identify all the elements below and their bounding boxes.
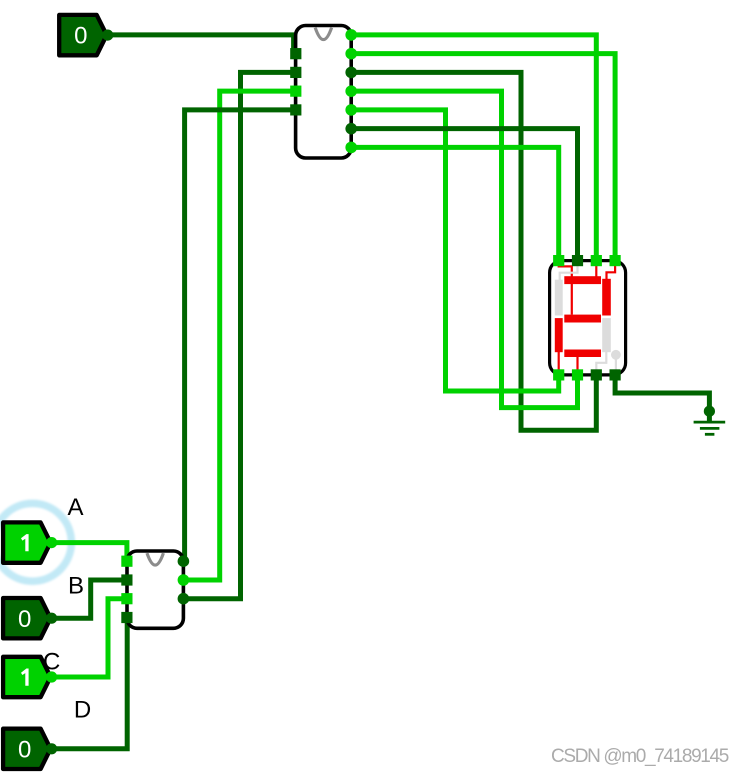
display trace to segment d (576, 356, 578, 372)
chip U2 output pin out1 (178, 555, 190, 567)
wire from pin A to U2 pin in1 (52, 543, 127, 562)
svg-text:D: D (74, 697, 91, 724)
input pin A (value 1) (3, 522, 57, 562)
input pin C (value 1) (3, 657, 57, 697)
chip U2 output pin out3 (178, 593, 190, 605)
display segment c (off) (602, 318, 611, 352)
wire from U1 out1 to display segment a pin (351, 35, 596, 261)
subcircuit chip U1 body (296, 26, 352, 159)
input pin 0 (top left, value 0) (59, 15, 113, 55)
chip U1 input pin in4 (290, 104, 301, 115)
wire from U1 out4 to display segment d pin (351, 91, 577, 407)
display segment d (lit) (564, 350, 601, 358)
display trace to segment a (595, 263, 597, 277)
display trace to segment f (560, 263, 578, 281)
display trace to segment c (596, 352, 606, 372)
display segment g (lit) (564, 315, 601, 323)
chip U1 output pin out3 (345, 67, 357, 79)
svg-text:0: 0 (74, 23, 87, 50)
wire from U1 out7 to display segment g pin (351, 147, 559, 260)
wire from pin C to U2 pin in3 (52, 599, 127, 677)
wire from pin D to U2 pin in4 (52, 618, 127, 749)
display trace to segment g (559, 263, 572, 315)
display bottom pin c (591, 369, 602, 380)
display top pin b (610, 255, 621, 266)
wire from U2 out1 to U1 pin in4 (183, 110, 295, 561)
svg-text:0: 0 (18, 606, 31, 633)
chip U1 input pin in2 (290, 67, 301, 78)
display segment b (lit) (602, 279, 611, 316)
display top pin f (572, 255, 583, 266)
wire from U1 out3 to display segment c pin (351, 72, 596, 430)
display trace to decimal point (615, 355, 617, 372)
display segment e (lit) (555, 318, 563, 352)
svg-text:B: B (68, 573, 84, 600)
svg-text:A: A (67, 494, 83, 521)
chip U1 output pin out6 (345, 123, 357, 135)
wire from U2 out2 to U1 pin in3 (183, 91, 295, 580)
display segment f (off) (555, 280, 563, 316)
chip U2 notch (147, 553, 163, 565)
display trace to segment e (558, 352, 560, 372)
wire from pin 0 to U1 pin in1 (107, 35, 294, 54)
display decimal point (off) (611, 350, 621, 360)
input pin B (value 0) (3, 598, 57, 638)
wire from U1 out6 to display segment f pin (351, 129, 577, 261)
chip U1 notch (315, 28, 331, 40)
chip U1 output pin out1 (345, 29, 357, 41)
chip U2 output pin out2 (178, 574, 190, 586)
display trace to segment b (607, 263, 616, 280)
wire from pin B to U2 pin in2 (52, 580, 127, 618)
display bottom pin d (572, 369, 583, 380)
chip U2 input pin C (121, 593, 132, 604)
chip U2 input pin D (121, 612, 132, 623)
wire from U1 out2 to display segment b pin (351, 54, 615, 261)
chip U2 input pin B (121, 574, 132, 585)
chip U1 output pin out7 (345, 142, 357, 154)
display bottom pin e (553, 369, 564, 380)
display segment a (lit) (564, 276, 601, 284)
chip U1 input pin in1 (290, 48, 301, 59)
chip U1 output pin out2 (345, 48, 357, 60)
chip U1 output pin out4 (345, 85, 357, 97)
chip U1 output pin out5 (345, 104, 357, 116)
input pin D (value 0) (3, 729, 57, 769)
chip U2 input pin A (121, 556, 132, 567)
svg-text:0: 0 (18, 736, 31, 763)
display top pin a (591, 255, 602, 266)
ground symbol (694, 406, 726, 435)
wire from display dp pin to ground (615, 375, 709, 411)
chip U1 input pin in3 (290, 86, 301, 97)
wire from U1 out5 to display segment e pin (351, 110, 559, 391)
subcircuit chip U2 body (127, 551, 183, 628)
wire from U2 out3 to U1 pin in2 (183, 72, 295, 598)
display top pin g (553, 255, 564, 266)
display bottom pin dp (610, 369, 621, 380)
svg-text:CSDN @m0_74189145: CSDN @m0_74189145 (551, 746, 729, 767)
seven segment display DS1 body (550, 261, 626, 375)
